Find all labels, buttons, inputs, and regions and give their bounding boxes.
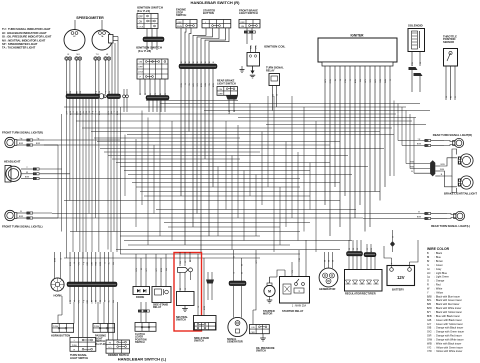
svg-text:G/Y: G/Y <box>156 267 158 271</box>
svg-text:LOCK: LOCK <box>138 26 144 28</box>
svg-text:OFF: OFF <box>240 22 245 24</box>
handlebar switch L connector bar <box>69 252 71 282</box>
horn <box>51 278 64 291</box>
svg-text:: Yellow with White tracer: : Yellow with White tracer <box>435 350 463 353</box>
wire junction pair <box>123 95 126 98</box>
svg-text:Y/G: Y/G <box>292 270 294 274</box>
svg-text:B/W: B/W <box>161 268 163 272</box>
svg-text:REAR TURN SIGNAL LIGHT(R): REAR TURN SIGNAL LIGHT(R) <box>433 133 472 137</box>
svg-text:WIRE COLOR: WIRE COLOR <box>427 247 450 251</box>
svg-text:NU : NEUTRAL INDICATOR LIGHT: NU : NEUTRAL INDICATOR LIGHT <box>2 38 46 42</box>
svg-text:M: M <box>268 290 271 294</box>
svg-text:SOLENOID: SOLENOID <box>408 23 423 27</box>
svg-text:(For P-24): (For P-24) <box>95 343 106 346</box>
svg-text:TU: TU <box>96 54 99 56</box>
svg-text:: Black with Green tracer: : Black with Green tracer <box>435 299 463 302</box>
svg-text:W: W <box>324 260 326 262</box>
ground symbol near rear brake switch <box>241 66 243 70</box>
svg-text:(For P-28): (For P-28) <box>138 49 151 53</box>
battery leads <box>391 258 393 268</box>
svg-text:: White with Black tracer: : White with Black tracer <box>435 342 462 345</box>
svg-text:OI : OIL PRESSURE INDICATOR LI: OI : OIL PRESSURE INDICATOR LIGHT <box>2 35 52 39</box>
brake light / taillight <box>460 154 473 167</box>
speedometer connector box <box>109 35 114 44</box>
svg-text:TA : TACHOMETER LIGHT: TA : TACHOMETER LIGHT <box>2 46 36 50</box>
svg-text:FRONT TURN SIGNAL LIGHT(L): FRONT TURN SIGNAL LIGHT(L) <box>2 225 43 229</box>
svg-text:12V: 12V <box>397 275 405 280</box>
horn button <box>73 302 75 324</box>
svg-text:HEADLIGHT: HEADLIGHT <box>4 160 21 164</box>
svg-text:STARTER RELAY: STARTER RELAY <box>282 309 304 313</box>
harness vertical runs left bundle <box>57 145 59 218</box>
svg-text:: Yellow with Green tracer: : Yellow with Green tracer <box>435 346 464 349</box>
svg-text:B/G: B/G <box>427 299 431 302</box>
svg-text:ON: ON <box>241 26 245 28</box>
svg-text:SPEEDOMETER: SPEEDOMETER <box>76 16 104 20</box>
oil pressure switch <box>250 325 270 334</box>
clutch lever position switch <box>140 302 142 310</box>
svg-text:W: W <box>328 260 330 262</box>
regulator/rectifier <box>345 270 383 292</box>
svg-text:OFF: OFF <box>251 332 256 334</box>
svg-text:O: O <box>185 83 187 85</box>
svg-text:ON: ON <box>219 89 223 91</box>
svg-text:Gr: Gr <box>82 111 85 114</box>
side-stand relay <box>152 287 171 303</box>
svg-text:LOCK: LOCK <box>138 72 144 74</box>
svg-text:: Light Green: : Light Green <box>435 276 450 279</box>
svg-text:Y/W: Y/W <box>96 262 98 266</box>
wires below speedometer connectors <box>66 99 68 112</box>
svg-text:: White: : White <box>435 287 443 290</box>
svg-text:O/R: O/R <box>193 83 195 87</box>
svg-text:B/Y: B/Y <box>427 311 431 314</box>
svg-text:SWITCH: SWITCH <box>176 13 186 17</box>
svg-text:B/R: B/R <box>427 303 431 306</box>
svg-text:: Black: : Black <box>435 252 443 255</box>
svg-text:OFF: OFF <box>138 67 143 69</box>
svg-text:: Black with Yellow tracer: : Black with Yellow tracer <box>435 311 463 314</box>
svg-text:HANDLEBAR SWITCH (L): HANDLEBAR SWITCH (L) <box>118 356 167 361</box>
svg-text:IGNITER: IGNITER <box>351 33 365 37</box>
svg-text:W/B: W/B <box>229 109 231 114</box>
rear brake light switch connector <box>226 96 238 100</box>
svg-text:W: W <box>349 248 351 250</box>
svg-text:OFF: OFF <box>218 93 223 95</box>
svg-text:BUTTON: BUTTON <box>203 11 214 15</box>
svg-text:Br: Br <box>159 93 162 95</box>
svg-text:HANDLEBAR SWITCH (R): HANDLEBAR SWITCH (R) <box>191 0 241 5</box>
svg-text:Lbl: Lbl <box>427 272 431 275</box>
rear turn signal light (L) <box>455 211 464 220</box>
generator leads <box>324 252 326 268</box>
svg-text:B/W: B/W <box>70 262 72 266</box>
svg-text:: Black with Blue tracer: : Black with Blue tracer <box>435 295 461 298</box>
svg-text:O/W: O/W <box>427 338 433 341</box>
side-stand switch <box>194 316 217 331</box>
svg-text:SWITCH: SWITCH <box>176 319 186 322</box>
starter relay <box>280 277 310 304</box>
svg-text:Y/W: Y/W <box>427 350 432 353</box>
svg-text:ON: ON <box>139 62 143 64</box>
svg-text:RUN: RUN <box>177 26 182 28</box>
highlight box (red) <box>174 253 202 332</box>
svg-text:O/G: O/G <box>136 268 138 272</box>
svg-text:W/B: W/B <box>250 44 252 49</box>
svg-text:Gr: Gr <box>427 268 430 271</box>
svg-text:LO: LO <box>108 347 111 349</box>
ignition switch P-28 connector <box>139 79 141 95</box>
harness vertical runs midfield <box>124 135 126 197</box>
svg-text:RELAY: RELAY <box>153 306 162 309</box>
svg-text:: Black with White tracer: : Black with White tracer <box>435 307 462 310</box>
svg-text:W: W <box>332 260 334 262</box>
svg-text:W/B: W/B <box>427 342 432 345</box>
handlebar switch R wiring to connector <box>180 28 182 64</box>
solenoid connector <box>411 52 413 67</box>
ignition switch P-24 connector <box>146 29 148 38</box>
svg-text:BRAKE LIGHT/TAILLIGHT: BRAKE LIGHT/TAILLIGHT <box>444 192 477 196</box>
svg-text:G/Y: G/Y <box>256 259 258 263</box>
svg-text:HORN BUTTON: HORN BUTTON <box>51 334 70 338</box>
svg-text:HI: HI <box>106 54 109 56</box>
front brake light switch pigtails <box>246 28 248 31</box>
svg-text:SWITCH: SWITCH <box>194 340 204 343</box>
svg-text:LIGHT SWITCH: LIGHT SWITCH <box>217 81 236 85</box>
svg-text:Bl/B: Bl/B <box>427 315 432 318</box>
svg-text:: Orange with Red tracer: : Orange with Red tracer <box>435 335 462 338</box>
svg-text:O/B: O/B <box>87 261 89 265</box>
svg-text:PUSH: PUSH <box>72 345 77 347</box>
svg-text:PUSH: PUSH <box>94 326 100 328</box>
neutral switch <box>179 252 181 266</box>
svg-text:OI: OI <box>67 54 70 56</box>
svg-text:: Blue with Black tracer: : Blue with Black tracer <box>435 315 461 318</box>
svg-text:: Orange: : Orange <box>435 280 445 283</box>
svg-text:: Yellow: : Yellow <box>435 291 444 294</box>
passing light switch <box>97 302 99 324</box>
speedometer connector bars <box>66 94 100 99</box>
svg-text:RELAY: RELAY <box>266 68 275 72</box>
front turn signal light (L) <box>5 210 15 220</box>
svg-text:Y/G: Y/G <box>197 83 199 87</box>
svg-text:O/G: O/G <box>427 331 432 334</box>
svg-text:NU: NU <box>77 54 81 56</box>
svg-text:HORN: HORN <box>54 293 62 297</box>
svg-text:B/W: B/W <box>427 307 432 310</box>
taillight wiring frame <box>440 158 457 166</box>
svg-text:W: W <box>357 248 359 250</box>
svg-text:SWITCH: SWITCH <box>256 350 266 353</box>
svg-text:: Gray: : Gray <box>435 268 443 271</box>
wire harness speedometer feeds <box>66 60 68 94</box>
svg-text:: Green with Yellow tracer: : Green with Yellow tracer <box>435 323 464 326</box>
svg-text:O/R: O/R <box>91 300 93 304</box>
svg-text:GENERATOR: GENERATOR <box>319 287 335 291</box>
svg-text:G/B: G/B <box>427 319 432 322</box>
diode <box>133 287 150 295</box>
svg-text:Y/G: Y/G <box>79 262 81 266</box>
svg-text:Br: Br <box>427 260 430 263</box>
svg-text:: Orange with Green tracer: : Orange with Green tracer <box>435 331 465 334</box>
svg-text:REAR TURN SIGNAL LIGHT(L): REAR TURN SIGNAL LIGHT(L) <box>431 224 470 228</box>
svg-text:: Orange with Black tracer: : Orange with Black tracer <box>435 327 464 330</box>
svg-text:B/W: B/W <box>54 258 56 262</box>
svg-text:: Light Blue: : Light Blue <box>435 272 448 275</box>
svg-text:IGNITION COIL: IGNITION COIL <box>264 44 286 48</box>
main fuse connector <box>390 241 395 247</box>
svg-text:LIGHT SWITCH: LIGHT SWITCH <box>239 11 258 15</box>
svg-text:: Red: : Red <box>435 284 442 287</box>
svg-text:G: G <box>427 264 429 267</box>
neutral switch ground <box>184 306 186 309</box>
svg-text:Gr: Gr <box>188 83 191 86</box>
svg-text:W: W <box>353 248 355 250</box>
svg-text:G/Y: G/Y <box>427 323 432 326</box>
svg-text:O: O <box>145 93 147 95</box>
svg-text:TU : TURN SIGNAL INDICATOR LIG: TU : TURN SIGNAL INDICATOR LIGHT <box>2 27 51 31</box>
svg-text:Gr: Gr <box>108 262 111 265</box>
spark plug lead and ground <box>252 66 254 71</box>
svg-text:Gr: Gr <box>208 83 211 86</box>
regulator connectors <box>347 252 363 256</box>
svg-text:PUSH: PUSH <box>53 326 59 328</box>
small inline connector near red box <box>206 280 214 284</box>
svg-text:: Brown: : Brown <box>435 260 444 263</box>
svg-text:B/Bl: B/Bl <box>427 295 432 298</box>
svg-text:DIODE: DIODE <box>136 295 144 299</box>
svg-text:O/R: O/R <box>91 262 93 266</box>
svg-text:: Orange with White tracer: : Orange with White tracer <box>435 338 464 341</box>
starter motor <box>264 285 275 296</box>
svg-text:Y/G: Y/G <box>427 346 431 349</box>
svg-text:G/Y: G/Y <box>146 267 148 271</box>
svg-text:: Blue: : Blue <box>435 256 442 259</box>
svg-text:REGULATOR/RECTIFIER: REGULATOR/RECTIFIER <box>345 292 376 296</box>
svg-text:Y/W: Y/W <box>96 300 98 304</box>
svg-text:O: O <box>427 280 429 283</box>
svg-text:B/W: B/W <box>371 248 373 252</box>
svg-text:MOTOR: MOTOR <box>263 313 272 316</box>
svg-text:FRONT TURN SIGNAL LIGHT(R): FRONT TURN SIGNAL LIGHT(R) <box>2 131 43 135</box>
svg-text:: Green with Black tracer: : Green with Black tracer <box>435 319 463 322</box>
svg-text:ON: ON <box>251 327 255 329</box>
svg-text:OFF: OFF <box>177 22 182 24</box>
svg-text:SWITCH: SWITCH <box>135 341 145 344</box>
svg-text:O/B: O/B <box>205 82 207 86</box>
svg-text:: Black with Red tracer: : Black with Red tracer <box>435 303 460 306</box>
svg-text:(For P-24): (For P-24) <box>137 9 150 13</box>
svg-text:Y/Bl: Y/Bl <box>299 257 301 261</box>
svg-text:OFF: OFF <box>138 16 143 18</box>
signal generator connector <box>233 286 235 318</box>
dimmer switch <box>108 302 110 340</box>
svg-text:R: R <box>427 284 429 287</box>
svg-text:SENSOR: SENSOR <box>443 40 454 44</box>
svg-text:HI: HI <box>109 343 112 345</box>
svg-text:Gr: Gr <box>149 93 152 96</box>
handlebar switch R connector bar <box>179 64 217 69</box>
svg-text:O/W: O/W <box>100 300 102 304</box>
svg-text:O/W: O/W <box>100 262 102 266</box>
svg-text:BATTERY: BATTERY <box>392 287 404 291</box>
svg-text:B/W: B/W <box>70 300 72 304</box>
svg-text:1 : MAIN 25A: 1 : MAIN 25A <box>292 305 307 308</box>
svg-text:LIGHT SWITCH: LIGHT SWITCH <box>70 357 88 360</box>
svg-text:HI : HIGH BEAM INDICATOR LIGHT: HI : HIGH BEAM INDICATOR LIGHT <box>2 31 47 35</box>
svg-text:Gr: Gr <box>108 300 111 303</box>
battery <box>387 266 415 286</box>
svg-text:GENERATOR: GENERATOR <box>227 341 243 344</box>
taillight connector <box>430 160 435 176</box>
svg-text:SP : SPEEDOMETER LIGHT: SP : SPEEDOMETER LIGHT <box>2 42 38 46</box>
svg-text:ON: ON <box>139 21 143 23</box>
signal generator <box>228 317 247 336</box>
harness horizontal runs upper-mid <box>146 100 238 102</box>
svg-text:O/B: O/B <box>427 327 432 330</box>
svg-text:O/R: O/R <box>427 335 432 338</box>
turn signal light switch <box>78 302 80 337</box>
starter motor ground <box>269 297 271 300</box>
generator <box>319 268 338 287</box>
svg-text:: Green: : Green <box>435 264 444 267</box>
